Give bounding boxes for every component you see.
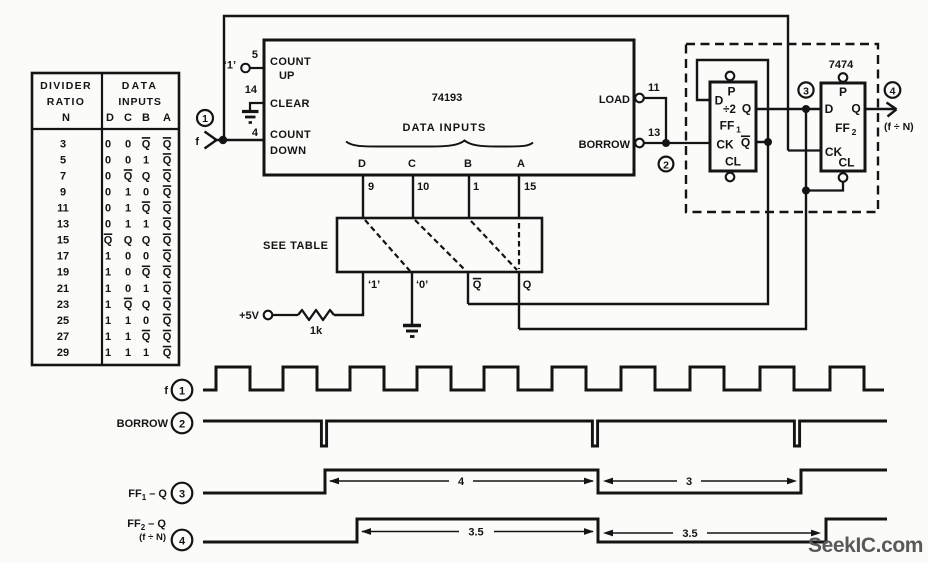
svg-text:Q: Q (163, 154, 172, 166)
dashed enclosure (divide-by-2 section) (686, 44, 878, 212)
svg-text:4: 4 (252, 127, 259, 139)
svg-text:INPUTS: INPUTS (118, 96, 161, 108)
svg-text:4: 4 (458, 476, 465, 488)
stub Q (518, 272, 520, 329)
waveform row BORROW label (117, 413, 193, 434)
svg-text:7: 7 (60, 170, 66, 182)
wire: Qbar from FF1 to table (468, 142, 768, 304)
svg-text:15: 15 (524, 181, 536, 193)
svg-text:27: 27 (57, 331, 69, 343)
divider ratio table frame (32, 73, 179, 365)
svg-text:0: 0 (125, 138, 131, 150)
svg-text:CK: CK (716, 138, 734, 152)
svg-text:1k: 1k (310, 325, 323, 337)
svg-text:23: 23 (57, 299, 69, 311)
svg-text:COUNT: COUNT (270, 129, 311, 141)
svg-text:Q: Q (163, 186, 172, 198)
wire: top run to FF2 CK (788, 149, 821, 151)
waveform row f label (164, 380, 192, 401)
svg-text:Q: Q (142, 235, 151, 247)
svg-text:BORROW: BORROW (579, 139, 631, 151)
svg-text:(f ÷ N): (f ÷ N) (884, 121, 914, 133)
svg-text:9: 9 (368, 181, 374, 193)
svg-text:1: 1 (125, 347, 131, 359)
svg-text:Q: Q (163, 251, 172, 263)
svg-text:1: 1 (143, 219, 149, 231)
SEE TABLE selector box (337, 218, 542, 272)
svg-text:UP: UP (279, 70, 294, 82)
waveform f clock trace (203, 367, 884, 390)
svg-text:÷2: ÷2 (723, 104, 736, 116)
svg-text:1: 1 (105, 331, 111, 343)
FF1 labels (715, 85, 752, 169)
flip-flop FF1 (half 7474) (710, 82, 756, 171)
wire: FF1 Q to FF2 D (756, 108, 821, 110)
svg-text:Q: Q (142, 203, 151, 215)
svg-text:2: 2 (852, 127, 857, 137)
svg-text:3: 3 (686, 476, 692, 488)
svg-text:Q: Q (163, 170, 172, 182)
svg-text:15: 15 (57, 235, 69, 247)
wire: feedback from node 3 column to f input (top run) (224, 16, 788, 151)
svg-text:Q: Q (163, 331, 172, 343)
junction: CL tie (802, 187, 810, 195)
svg-text:SEE TABLE: SEE TABLE (263, 240, 328, 252)
svg-text:CL: CL (839, 156, 855, 170)
svg-text:(f ÷ N): (f ÷ N) (139, 532, 166, 543)
junction: load/borrow (662, 139, 670, 147)
svg-text:0: 0 (105, 219, 111, 231)
svg-text:0: 0 (125, 283, 131, 295)
svg-text:3: 3 (803, 86, 809, 98)
svg-text:D: D (825, 102, 834, 116)
wire: Q from FF1 to table (519, 109, 806, 329)
FF1 preset bubble (726, 72, 735, 81)
svg-text:1: 1 (179, 386, 185, 398)
output arrow f/N (865, 103, 897, 117)
svg-text:B: B (142, 112, 150, 124)
svg-text:B: B (464, 158, 472, 170)
wire: pin 15 A to table box (518, 175, 520, 219)
svg-text:1: 1 (202, 113, 208, 125)
IC U1 74193 (264, 40, 634, 175)
svg-text:Q: Q (124, 170, 133, 182)
svg-text:Q: Q (163, 283, 172, 295)
svg-text:0: 0 (105, 203, 111, 215)
svg-text:RATIO: RATIO (47, 96, 85, 108)
svg-text:1: 1 (143, 154, 149, 166)
svg-text:P: P (727, 85, 735, 99)
svg-text:FF2 – Q: FF2 – Q (127, 518, 166, 532)
svg-text:2: 2 (179, 419, 185, 431)
node 1 (197, 110, 213, 126)
waveform FF1-Q trace (203, 470, 887, 493)
stub '0' (411, 272, 413, 325)
svg-text:14: 14 (245, 84, 258, 96)
svg-text:DOWN: DOWN (270, 145, 306, 157)
svg-text:DATA INPUTS: DATA INPUTS (402, 122, 486, 134)
resistor R1 1k (273, 310, 335, 337)
svg-text:SeekIC.com: SeekIC.com (808, 534, 923, 557)
dimension arrow 3 periods (603, 476, 797, 488)
FF2 labels (825, 85, 861, 170)
svg-text:Q: Q (163, 347, 172, 359)
svg-text:1: 1 (105, 267, 111, 279)
svg-text:5: 5 (60, 154, 66, 166)
waveform BORROW trace (203, 421, 887, 446)
svg-text:1: 1 (105, 283, 111, 295)
svg-text:0: 0 (105, 170, 111, 182)
svg-text:COUNT: COUNT (270, 56, 311, 68)
FF2 preset bubble (839, 73, 848, 82)
table data rows (57, 138, 172, 359)
svg-text:Q: Q (742, 102, 751, 116)
junction: f node (219, 136, 227, 144)
svg-text:Q: Q (163, 203, 172, 215)
svg-text:10: 10 (417, 181, 429, 193)
svg-text:29: 29 (57, 347, 69, 359)
svg-text:0: 0 (105, 186, 111, 198)
dashed link D to 0 (365, 220, 410, 271)
wire: LOAD to BORROW junction (644, 98, 666, 143)
svg-text:Q: Q (851, 102, 860, 116)
ground at '0' stub (403, 326, 421, 337)
svg-text:4: 4 (179, 536, 186, 548)
svg-text:7474: 7474 (829, 59, 854, 71)
svg-text:‘1’: ‘1’ (368, 279, 380, 291)
svg-text:11: 11 (648, 82, 660, 94)
svg-text:LOAD: LOAD (599, 94, 630, 106)
svg-text:21: 21 (57, 283, 69, 295)
data input pin letters D C B A (358, 158, 525, 170)
svg-text:D: D (358, 158, 366, 170)
svg-text:Q: Q (104, 235, 113, 247)
svg-text:N: N (62, 112, 70, 124)
waveform row FF2-Q label (127, 518, 192, 550)
svg-text:Q: Q (741, 136, 750, 150)
svg-text:Q: Q (142, 331, 151, 343)
svg-text:0: 0 (125, 267, 131, 279)
svg-text:BORROW: BORROW (117, 418, 169, 430)
svg-text:Q: Q (163, 315, 172, 327)
svg-text:Q: Q (124, 299, 133, 311)
svg-text:0: 0 (125, 251, 131, 263)
svg-text:Q: Q (142, 267, 151, 279)
svg-text:C: C (124, 112, 132, 124)
svg-text:9: 9 (60, 186, 66, 198)
svg-text:0: 0 (143, 251, 149, 263)
svg-text:1: 1 (105, 299, 111, 311)
svg-text:Q: Q (163, 138, 172, 150)
+5V supply terminal (239, 310, 272, 322)
FF2 clear bubble (839, 173, 848, 182)
svg-text:CL: CL (725, 155, 741, 169)
svg-text:1: 1 (125, 203, 131, 215)
svg-text:1: 1 (736, 125, 741, 135)
dashed link B to Q (471, 221, 517, 270)
dimension arrow 4 periods (329, 476, 594, 488)
svg-text:P: P (839, 85, 847, 99)
data input pin numbers 9 10 1 15 (368, 181, 536, 193)
svg-text:0: 0 (143, 186, 149, 198)
svg-text:3.5: 3.5 (468, 527, 483, 539)
svg-text:0: 0 (125, 154, 131, 166)
wire: pin 9 D to table box (362, 175, 364, 219)
wire: Q node to FF2 CL (806, 182, 843, 191)
svg-text:3.5: 3.5 (682, 528, 697, 540)
svg-text:1: 1 (105, 347, 111, 359)
wire: resistor to '1' stub (334, 313, 363, 315)
svg-text:1: 1 (125, 315, 131, 327)
dashed link A straight down (518, 223, 520, 269)
input f arrow (195, 132, 216, 149)
svg-text:1: 1 (125, 186, 131, 198)
svg-text:DIVIDER: DIVIDER (40, 80, 92, 92)
svg-text:0: 0 (105, 154, 111, 166)
svg-text:‘1’: ‘1’ (224, 60, 236, 72)
svg-text:Q: Q (142, 138, 151, 150)
dimension arrow 3.5 periods (second) (603, 528, 821, 540)
svg-text:25: 25 (57, 315, 69, 327)
FF1 clear bubble (726, 173, 735, 182)
svg-text:0: 0 (105, 138, 111, 150)
svg-text:Q: Q (142, 299, 151, 311)
svg-text:11: 11 (57, 203, 69, 215)
svg-text:1: 1 (143, 283, 149, 295)
BORROW pin 13 (579, 127, 661, 151)
svg-text:FF: FF (720, 119, 735, 133)
svg-text:13: 13 (57, 219, 69, 231)
wire: f to COUNT DOWN pin 4 (214, 139, 264, 141)
svg-text:2: 2 (663, 160, 669, 172)
wire: BORROW to FF1 CK (644, 142, 710, 144)
svg-text:FF: FF (835, 121, 850, 135)
svg-text:Q: Q (163, 219, 172, 231)
logic '1' tie to COUNT UP pin 5 (224, 60, 264, 73)
LOAD pin 11 (599, 82, 660, 106)
svg-text:1: 1 (105, 251, 111, 263)
svg-text:17: 17 (57, 251, 69, 263)
svg-text:f: f (164, 385, 168, 397)
svg-text:A: A (163, 112, 171, 124)
dashed link C to Qbar (415, 220, 466, 271)
node 2 (659, 157, 674, 172)
svg-text:13: 13 (648, 127, 660, 139)
waveform FF2-Q trace (203, 519, 887, 542)
wire: FF1 Qbar to D feedback loop (697, 60, 768, 142)
node 3 (798, 82, 813, 97)
svg-text:Q: Q (163, 235, 172, 247)
wire: pin 10 C to table box (412, 175, 414, 219)
svg-text:5: 5 (252, 49, 258, 61)
svg-text:‘0’: ‘0’ (416, 279, 428, 291)
svg-text:CLEAR: CLEAR (270, 98, 310, 110)
waveform row FF1-Q label (128, 483, 192, 504)
junction: Q node (802, 105, 810, 113)
svg-text:D: D (106, 112, 114, 124)
svg-text:0: 0 (143, 315, 149, 327)
svg-text:+5V: +5V (239, 310, 260, 322)
flip-flop FF2 (half 7474) (821, 83, 865, 171)
svg-text:1: 1 (125, 219, 131, 231)
svg-text:Q: Q (142, 170, 151, 182)
svg-text:C: C (408, 158, 416, 170)
74193 pin name texts (270, 56, 487, 157)
svg-text:1: 1 (473, 181, 479, 193)
node 4 (885, 82, 901, 98)
dimension arrow 3.5 periods (first) (361, 527, 594, 539)
svg-text:Q: Q (163, 299, 172, 311)
stub Qbar (467, 272, 469, 304)
svg-text:3: 3 (60, 138, 66, 150)
stub '1' (362, 272, 364, 314)
svg-text:Q: Q (163, 267, 172, 279)
table header text (40, 80, 171, 124)
svg-text:1: 1 (143, 347, 149, 359)
svg-text:A: A (517, 158, 525, 170)
svg-text:74193: 74193 (432, 92, 463, 104)
wire: pin 1 B to table box (468, 175, 470, 219)
svg-text:Q: Q (124, 235, 133, 247)
svg-text:19: 19 (57, 267, 69, 279)
svg-text:FF1 – Q: FF1 – Q (128, 488, 167, 502)
junction: Qbar node (764, 138, 772, 146)
svg-text:DATA: DATA (122, 80, 158, 92)
svg-text:1: 1 (125, 331, 131, 343)
svg-text:3: 3 (179, 489, 185, 501)
svg-text:Q: Q (473, 279, 482, 291)
svg-text:1: 1 (105, 315, 111, 327)
svg-text:Q: Q (523, 279, 532, 291)
brace under DATA INPUTS (346, 141, 533, 147)
svg-text:f: f (195, 136, 199, 148)
svg-text:4: 4 (890, 86, 896, 98)
ground at CLEAR pin 14 (242, 103, 264, 123)
